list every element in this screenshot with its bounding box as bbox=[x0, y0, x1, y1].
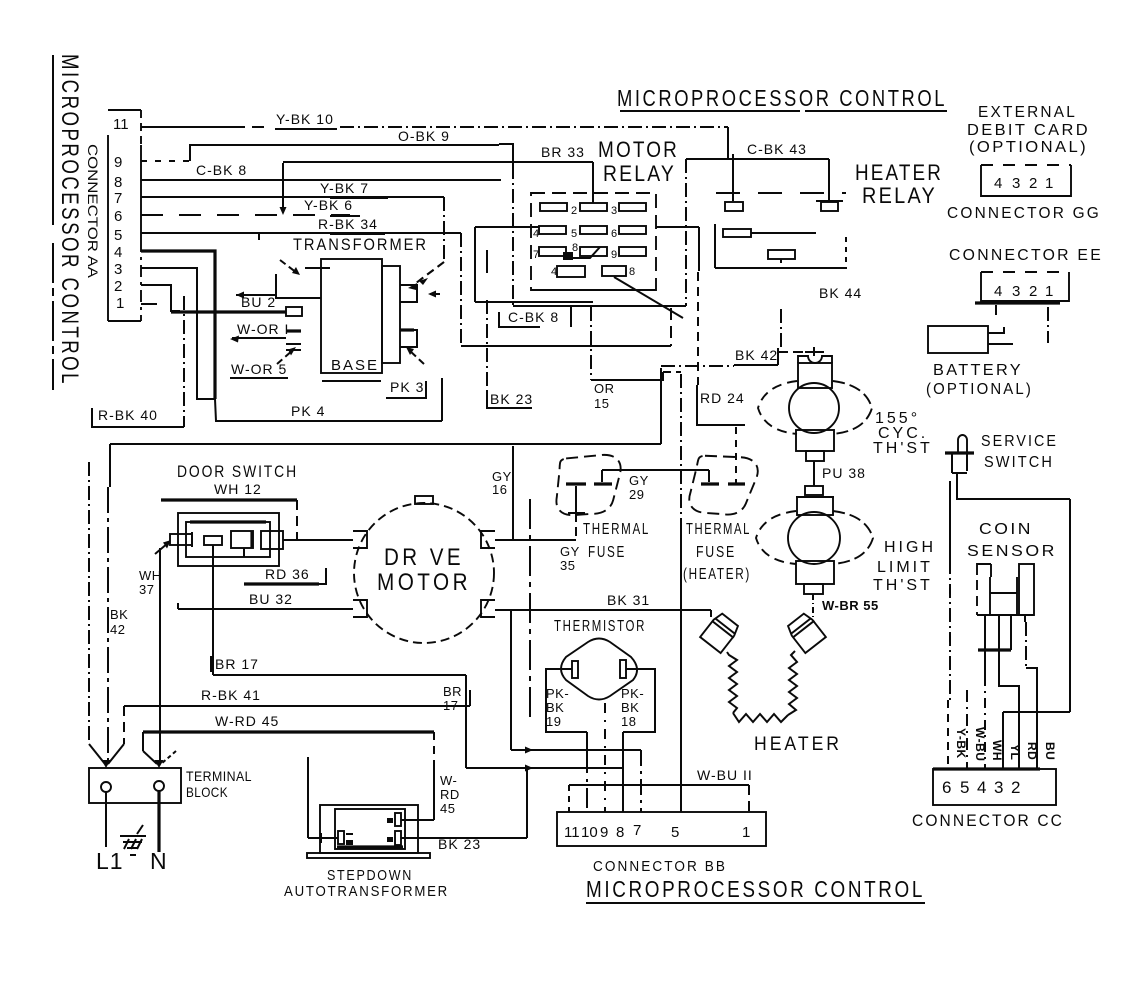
transformer right tabs bbox=[400, 285, 417, 347]
wire W-RD 45 thick bbox=[143, 732, 434, 820]
label DRIVE MOTOR bbox=[377, 544, 471, 596]
cycling thermostat 155 top cap bbox=[798, 347, 832, 363]
relay surrounding wires bbox=[461, 227, 699, 346]
svg-text:9: 9 bbox=[611, 249, 617, 261]
svg-text:C-BK 8: C-BK 8 bbox=[196, 162, 247, 178]
svg-text:MICROPROCESSOR CONTROL: MICROPROCESSOR CONTROL bbox=[586, 876, 925, 902]
svg-text:PK-: PK- bbox=[621, 686, 644, 701]
label PK 3 with bracket bbox=[386, 347, 426, 398]
label PK-BK 19 bbox=[546, 686, 569, 729]
svg-text:BK 23: BK 23 bbox=[490, 391, 533, 407]
svg-text:MOTOR: MOTOR bbox=[377, 569, 471, 596]
wire R-BK 34 (pin 5) bbox=[141, 233, 461, 346]
svg-text:PU 38: PU 38 bbox=[822, 465, 866, 481]
svg-text:4: 4 bbox=[977, 778, 986, 797]
label STEPDOWN AUTOTRANSFORMER bbox=[284, 867, 449, 900]
svg-text:1: 1 bbox=[742, 824, 750, 841]
left vertical dash-dot to terminal block bbox=[89, 462, 108, 762]
svg-text:THERMISTOR: THERMISTOR bbox=[554, 618, 646, 635]
wire GY16 vertical bbox=[512, 446, 514, 540]
label BR 17 right column bbox=[443, 684, 462, 713]
svg-text:RD 24: RD 24 bbox=[700, 390, 745, 406]
relay contacts row 3 bbox=[533, 242, 646, 261]
service switch bbox=[945, 435, 1070, 499]
label MOTOR RELAY bbox=[598, 137, 679, 186]
svg-text:Y-BK 10: Y-BK 10 bbox=[276, 111, 334, 127]
wire pin 4 thick bbox=[141, 251, 215, 399]
wire pin 3 bbox=[141, 268, 215, 399]
wire BR17 drop from door switch bbox=[212, 545, 214, 675]
svg-text:Y-BK 6: Y-BK 6 bbox=[304, 197, 353, 213]
heater zigzag wires bbox=[727, 651, 797, 722]
svg-text:BR: BR bbox=[443, 684, 462, 699]
svg-text:4: 4 bbox=[533, 228, 539, 240]
svg-text:THERMAL: THERMAL bbox=[686, 521, 751, 538]
svg-text:RD: RD bbox=[440, 787, 460, 802]
svg-text:BU 2: BU 2 bbox=[241, 294, 276, 310]
svg-text:R-BK 41: R-BK 41 bbox=[201, 687, 261, 703]
connector EE box bbox=[975, 272, 1069, 343]
bottom heading MICROPROCESSOR CONTROL bbox=[586, 876, 925, 903]
svg-text:6: 6 bbox=[942, 778, 951, 797]
svg-text:N: N bbox=[150, 848, 168, 874]
svg-text:5: 5 bbox=[671, 824, 679, 841]
wire BR33 drop to relay pin 2 bbox=[592, 162, 594, 203]
wire W-BR55 dash-dot bbox=[812, 594, 814, 618]
wire BB pin8 horizontal bbox=[466, 765, 623, 772]
label RD 36 with bracket bbox=[244, 566, 326, 584]
svg-text:(OPTIONAL): (OPTIONAL) bbox=[926, 381, 1033, 398]
callout dash toward R-BK34 bbox=[428, 291, 445, 298]
svg-text:O-BK 9: O-BK 9 bbox=[398, 128, 450, 144]
svg-text:TH'ST: TH'ST bbox=[873, 577, 933, 594]
svg-text:37: 37 bbox=[139, 582, 154, 597]
svg-text:W-RD 45: W-RD 45 bbox=[215, 713, 279, 729]
label BR 17 with tick bbox=[211, 656, 259, 672]
svg-text:HEATER: HEATER bbox=[855, 160, 943, 185]
label Y-BK 7 bbox=[320, 180, 388, 198]
label GY 29 bbox=[629, 473, 649, 502]
long horizontal wire y444 bbox=[110, 368, 661, 487]
svg-text:R-BK 34: R-BK 34 bbox=[318, 216, 378, 232]
label HEATER RELAY bbox=[855, 160, 943, 208]
svg-text:W-BR 55: W-BR 55 bbox=[822, 598, 879, 613]
svg-text:Y-BK: Y-BK bbox=[954, 728, 968, 759]
svg-text:W-: W- bbox=[440, 773, 457, 788]
svg-text:(OPTIONAL): (OPTIONAL) bbox=[969, 139, 1088, 156]
svg-text:45: 45 bbox=[440, 801, 455, 816]
svg-text:PK-: PK- bbox=[546, 686, 569, 701]
svg-text:CONNECTOR GG: CONNECTOR GG bbox=[947, 205, 1101, 222]
svg-text:BK: BK bbox=[110, 607, 128, 622]
svg-text:16: 16 bbox=[492, 482, 507, 497]
svg-text:18: 18 bbox=[621, 714, 636, 729]
svg-text:BK 23: BK 23 bbox=[438, 836, 481, 852]
svg-text:5: 5 bbox=[114, 227, 122, 244]
svg-text:BATTERY: BATTERY bbox=[933, 362, 1023, 379]
svg-text:BU 32: BU 32 bbox=[249, 591, 293, 607]
wire mid contact drop bbox=[243, 548, 245, 557]
svg-text:(HEATER): (HEATER) bbox=[683, 566, 751, 583]
door switch boxes bbox=[178, 513, 279, 566]
svg-text:COIN: COIN bbox=[979, 521, 1033, 538]
wires below terminal block bbox=[106, 791, 159, 852]
label 155 CYC TH'ST bbox=[873, 410, 933, 457]
thermistor center dash wire to BB pin9 bbox=[604, 703, 606, 812]
heater relay coil box bbox=[715, 224, 847, 268]
svg-text:CONNECTOR CC: CONNECTOR CC bbox=[912, 811, 1064, 830]
svg-text:MICROPROCESSOR CONTROL: MICROPROCESSOR CONTROL bbox=[617, 85, 947, 111]
heater relay contact pads bbox=[725, 201, 843, 211]
wire between thermostats bbox=[796, 461, 834, 497]
label PK-BK 18 bbox=[621, 686, 644, 729]
svg-text:L1: L1 bbox=[96, 848, 124, 874]
wire right drop from service switch bbox=[1003, 499, 1070, 769]
svg-text:2: 2 bbox=[114, 278, 122, 295]
thermistor left pin wiring to BB pin10 bbox=[546, 669, 587, 812]
wire BK 31 bbox=[495, 610, 711, 617]
label Y-BK 6 bbox=[304, 197, 360, 216]
thermistor right pin wiring to BB pin8 bbox=[623, 669, 655, 812]
wire BR17 across and down bbox=[213, 659, 466, 768]
svg-text:DR VE: DR VE bbox=[384, 544, 464, 571]
thermal fuse heater terminals bbox=[701, 470, 745, 484]
svg-text:Y-BK 7: Y-BK 7 bbox=[320, 180, 369, 196]
svg-text:3: 3 bbox=[1012, 283, 1020, 300]
svg-text:4: 4 bbox=[114, 244, 122, 261]
svg-text:BK: BK bbox=[546, 700, 564, 715]
wire W-RD into transformer bbox=[401, 819, 434, 821]
svg-text:FUSE: FUSE bbox=[696, 544, 736, 561]
svg-text:3: 3 bbox=[1012, 175, 1020, 192]
svg-text:1: 1 bbox=[1045, 283, 1053, 300]
svg-text:PK 3: PK 3 bbox=[390, 379, 424, 395]
wire BU 32 bbox=[178, 603, 353, 609]
transformer left pin tabs bbox=[236, 268, 321, 350]
autotransformer terminals bbox=[338, 813, 401, 845]
svg-text:RELAY: RELAY bbox=[862, 183, 937, 208]
wire BU 2 thick bbox=[171, 310, 286, 313]
connector CC vertical wire labels bbox=[954, 727, 1057, 761]
stepdown autotransformer outer box bbox=[307, 805, 430, 858]
svg-text:35: 35 bbox=[560, 558, 575, 573]
door switch arrow bbox=[155, 540, 171, 554]
svg-text:2: 2 bbox=[1029, 175, 1037, 192]
heater plug left bbox=[700, 612, 741, 654]
wire y470 between fuses bbox=[602, 469, 709, 471]
thermal fuse left terminals bbox=[566, 470, 612, 539]
svg-text:WH: WH bbox=[990, 740, 1004, 761]
svg-text:42: 42 bbox=[110, 622, 125, 637]
wire W-BU 11 bbox=[569, 785, 749, 812]
wire Y-BK 10 (pin 11) bbox=[141, 127, 728, 158]
label HIGH LIMIT TH'ST bbox=[873, 539, 936, 594]
wire PK 4 bbox=[215, 378, 442, 421]
svg-text:15: 15 bbox=[594, 396, 609, 411]
svg-text:SERVICE: SERVICE bbox=[981, 433, 1058, 450]
svg-text:5: 5 bbox=[960, 778, 969, 797]
svg-text:3: 3 bbox=[611, 205, 617, 217]
svg-text:2: 2 bbox=[571, 205, 577, 217]
svg-text:4: 4 bbox=[994, 175, 1002, 192]
svg-text:11: 11 bbox=[113, 116, 129, 133]
svg-text:8: 8 bbox=[629, 266, 635, 278]
label W-OR 5 with dash-dot callout bbox=[230, 347, 296, 378]
label C-BK 8 with bracket box bbox=[499, 306, 571, 327]
svg-text:WH: WH bbox=[139, 568, 162, 583]
svg-text:BR 33: BR 33 bbox=[541, 144, 585, 160]
coin sensor output wires bbox=[967, 615, 1037, 769]
svg-text:11: 11 bbox=[564, 824, 580, 841]
svg-text:1: 1 bbox=[1045, 175, 1053, 192]
wire pin 2 bbox=[141, 285, 180, 311]
svg-text:CONNECTOR EE: CONNECTOR EE bbox=[949, 247, 1103, 264]
svg-text:10: 10 bbox=[581, 824, 598, 841]
wire Y-BK 7 (pin 7) bbox=[141, 197, 444, 285]
relay contacts row 4 bbox=[551, 266, 683, 318]
svg-text:BK: BK bbox=[621, 700, 639, 715]
wire RD24 dash to heater fuse bbox=[735, 427, 737, 483]
svg-text:AUTOTRANSFORMER: AUTOTRANSFORMER bbox=[284, 883, 449, 900]
wire left terminal feed bbox=[308, 757, 338, 843]
battery bbox=[928, 326, 1013, 353]
wire O-BK 9 (pin 9) bbox=[141, 144, 513, 306]
left vertical heading MICROPROCESSOR CONTROL bbox=[53, 54, 83, 390]
svg-text:CONNECTOR BB: CONNECTOR BB bbox=[593, 858, 727, 875]
svg-text:8: 8 bbox=[114, 174, 122, 191]
svg-text:WH 12: WH 12 bbox=[214, 481, 262, 497]
svg-text:BLOCK: BLOCK bbox=[186, 784, 228, 800]
svg-text:W-BU: W-BU bbox=[973, 727, 987, 761]
label BK 23 upper with bracket bbox=[487, 300, 533, 408]
svg-text:2: 2 bbox=[1029, 283, 1037, 300]
svg-text:8: 8 bbox=[616, 824, 624, 841]
svg-text:SENSOR: SENSOR bbox=[967, 543, 1057, 560]
connector BB box bbox=[557, 812, 766, 846]
label TERMINAL BLOCK bbox=[186, 768, 252, 800]
svg-text:TRANSFORMER: TRANSFORMER bbox=[293, 235, 428, 254]
thermal fuse heater blob bbox=[688, 454, 758, 517]
wire pin 1 stub bbox=[141, 303, 157, 305]
label THERMAL FUSE bbox=[583, 521, 650, 561]
wire Y-BK 6 (pin 6) bbox=[141, 163, 350, 215]
label WH 37 bbox=[139, 568, 162, 597]
top heading MICROPROCESSOR CONTROL bbox=[617, 85, 947, 111]
relay contacts row 1 bbox=[540, 203, 646, 217]
svg-text:BK 42: BK 42 bbox=[735, 347, 778, 363]
svg-text:C-BK 43: C-BK 43 bbox=[747, 141, 807, 157]
terminal block funnels bbox=[89, 730, 176, 768]
vertical label CONNECTOR AA bbox=[85, 144, 101, 279]
drive motor circle bbox=[353, 496, 495, 643]
svg-text:BU: BU bbox=[1043, 742, 1057, 760]
svg-text:29: 29 bbox=[629, 487, 644, 502]
heater relay wiring bbox=[686, 154, 846, 306]
motor relay dashed outline bbox=[531, 193, 656, 290]
high limit thermostat body bbox=[756, 497, 873, 594]
label EXTERNAL DEBIT CARD (OPTIONAL) bbox=[967, 104, 1090, 156]
label W- RD 45 stacked bbox=[440, 773, 460, 816]
svg-text:GY: GY bbox=[629, 473, 649, 488]
wire OR15 riser bbox=[590, 307, 592, 380]
svg-text:9: 9 bbox=[600, 824, 608, 841]
wire to BR33 from node x283 bbox=[283, 161, 593, 163]
svg-text:3: 3 bbox=[114, 261, 122, 278]
wire WH12 bbox=[161, 500, 297, 540]
label GY 35 bbox=[560, 544, 580, 573]
door switch contacts bbox=[170, 531, 283, 549]
svg-text:BK 31: BK 31 bbox=[607, 592, 650, 608]
svg-text:C-BK 8: C-BK 8 bbox=[508, 309, 559, 325]
label OR 15 bbox=[594, 381, 615, 411]
dash-dot vertical R-BK 40 riser bbox=[183, 296, 185, 427]
label R-BK 40 with bracket bbox=[92, 407, 184, 427]
wire motor right upper to fuse bbox=[495, 539, 513, 541]
svg-text:SWITCH: SWITCH bbox=[984, 454, 1054, 471]
thermistor diamond body bbox=[561, 639, 637, 700]
cycling thermostat 155 body bbox=[758, 363, 872, 461]
relay contacts row 2 bbox=[533, 226, 646, 240]
svg-text:MICROPROCESSOR CONTROL: MICROPROCESSOR CONTROL bbox=[56, 54, 83, 386]
svg-text:HIGH: HIGH bbox=[884, 539, 936, 556]
svg-text:6: 6 bbox=[114, 208, 122, 225]
wire R-BK 41 bbox=[124, 690, 470, 744]
label COIN SENSOR bbox=[967, 521, 1057, 560]
svg-text:TERMINAL: TERMINAL bbox=[186, 768, 252, 784]
svg-text:FUSE: FUSE bbox=[588, 544, 626, 561]
wire motor left upper to door switch bbox=[283, 539, 353, 541]
wire fuse-left to motor bbox=[495, 539, 576, 541]
svg-text:2: 2 bbox=[1011, 778, 1020, 797]
svg-text:3: 3 bbox=[994, 778, 1003, 797]
svg-text:RD 36: RD 36 bbox=[265, 566, 310, 582]
svg-text:7: 7 bbox=[533, 249, 539, 261]
svg-text:CONNECTOR AA: CONNECTOR AA bbox=[85, 144, 101, 279]
svg-text:R-BK 40: R-BK 40 bbox=[98, 407, 158, 423]
svg-text:RELAY: RELAY bbox=[603, 161, 676, 186]
svg-text:OR: OR bbox=[594, 381, 615, 396]
transformer body bbox=[321, 259, 400, 381]
label R-BK 34 bbox=[318, 216, 385, 234]
label THERMAL FUSE (HEATER) bbox=[683, 521, 751, 583]
thermal fuse left blob bbox=[553, 454, 623, 517]
svg-text:BASE: BASE bbox=[331, 357, 379, 374]
svg-text:4: 4 bbox=[994, 283, 1002, 300]
connector AA pin numbers bbox=[113, 116, 129, 312]
wire BB pin7 horizontal bbox=[511, 747, 641, 813]
wire BK44 dash-dot drop bbox=[780, 309, 782, 350]
svg-text:W-OR I: W-OR I bbox=[237, 321, 289, 337]
svg-text:THERMAL: THERMAL bbox=[583, 521, 650, 538]
label RD 24 with bracket bbox=[697, 272, 745, 425]
mystery verticals below motor bbox=[511, 499, 530, 750]
svg-text:TH'ST: TH'ST bbox=[873, 440, 933, 457]
svg-text:4: 4 bbox=[551, 266, 557, 278]
svg-text:W-BU II: W-BU II bbox=[697, 767, 753, 783]
wire Y-BK left drop to pin 6 bbox=[948, 481, 950, 769]
svg-text:MOTOR: MOTOR bbox=[598, 137, 679, 162]
svg-text:1: 1 bbox=[116, 295, 124, 312]
ground symbol bbox=[120, 825, 146, 855]
svg-text:5: 5 bbox=[571, 228, 577, 240]
wire BK 23 from transformer bbox=[401, 768, 527, 838]
svg-text:PK 4: PK 4 bbox=[291, 403, 325, 419]
label BK 42 left bbox=[110, 607, 128, 637]
transformer callout arrows top-left bbox=[280, 260, 330, 275]
label SERVICE SWITCH bbox=[981, 433, 1058, 471]
svg-text:7: 7 bbox=[114, 190, 122, 207]
svg-text:9: 9 bbox=[114, 154, 122, 171]
label GY 16 bbox=[492, 469, 512, 497]
svg-text:DEBIT CARD: DEBIT CARD bbox=[967, 122, 1090, 139]
svg-text:DOOR SWITCH: DOOR SWITCH bbox=[177, 462, 298, 481]
connector CC box bbox=[933, 769, 1056, 805]
connector GG box bbox=[981, 165, 1071, 196]
label BATTERY (OPTIONAL) bbox=[926, 362, 1033, 398]
svg-text:LIMIT: LIMIT bbox=[877, 559, 933, 576]
svg-text:19: 19 bbox=[546, 714, 561, 729]
terminal block bbox=[89, 768, 181, 803]
connector AA box bbox=[108, 110, 141, 321]
svg-text:GY: GY bbox=[560, 544, 580, 559]
label O-BK 9 bbox=[398, 128, 455, 145]
long vertical to BB pin5 bbox=[680, 374, 682, 812]
label BK 42 right with bracket bbox=[661, 347, 804, 366]
coin sensor body bbox=[977, 564, 1034, 615]
svg-text:6: 6 bbox=[611, 228, 617, 240]
svg-text:YL: YL bbox=[1008, 744, 1022, 760]
svg-text:7: 7 bbox=[633, 822, 641, 839]
label W-OR I with arrowed underline bbox=[230, 321, 289, 343]
svg-text:EXTERNAL: EXTERNAL bbox=[978, 104, 1077, 121]
svg-text:BK 44: BK 44 bbox=[819, 285, 862, 301]
callout diagonal from Y-BK7 to right tab bbox=[408, 262, 444, 290]
svg-text:BR 17: BR 17 bbox=[215, 656, 259, 672]
thermistor pins bbox=[572, 660, 626, 678]
wire WH 37 drop bbox=[159, 548, 161, 762]
heater plug right bbox=[786, 611, 827, 653]
svg-text:HEATER: HEATER bbox=[754, 734, 842, 755]
svg-text:RD: RD bbox=[1025, 742, 1039, 760]
svg-text:STEPDOWN: STEPDOWN bbox=[327, 867, 413, 884]
wire O-BK 8 (pin 8) bbox=[141, 179, 501, 181]
